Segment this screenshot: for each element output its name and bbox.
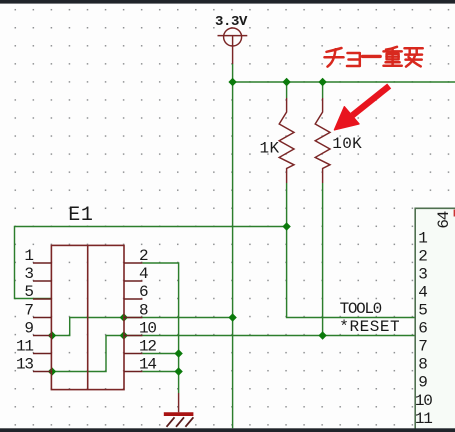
svg-text:6: 6 <box>139 283 148 301</box>
pin 6 <box>124 298 142 300</box>
svg-text:1K: 1K <box>260 139 280 157</box>
node 3.3V/top <box>228 78 236 86</box>
pin 1 <box>33 262 51 264</box>
svg-text:1: 1 <box>418 229 427 247</box>
node pin12 <box>174 349 182 357</box>
ground <box>164 393 194 427</box>
wire to ground <box>178 372 180 394</box>
svg-text:4: 4 <box>418 284 427 302</box>
IC U1 64-pin box (partial) <box>415 208 455 432</box>
wire 1K top lead <box>286 82 288 98</box>
window chrome bars <box>0 0 455 4</box>
svg-text:14: 14 <box>139 356 156 374</box>
wire 10K bottom <box>322 183 324 336</box>
right IC interior tint <box>415 209 455 428</box>
red sliver at right edge <box>454 210 455 217</box>
pin 9 <box>33 335 51 337</box>
svg-text:10K: 10K <box>332 135 362 153</box>
svg-text:3: 3 <box>418 266 427 284</box>
svg-text:64: 64 <box>435 211 453 228</box>
svg-text:1: 1 <box>24 247 33 265</box>
node 3.3V/pin8 wire <box>228 313 236 321</box>
svg-text:7: 7 <box>24 302 33 320</box>
svg-text:E1: E1 <box>68 204 93 227</box>
wire pin9 to 3.3V <box>52 318 233 336</box>
power symbol 3.3V <box>218 28 248 64</box>
junction diamonds <box>48 78 327 376</box>
svg-text:10: 10 <box>415 392 432 410</box>
pin 11 <box>33 353 51 355</box>
wire *RESET <box>124 335 415 337</box>
svg-text:3.3V: 3.3V <box>215 14 248 30</box>
svg-text:7: 7 <box>418 338 427 356</box>
pin 5 <box>33 298 51 300</box>
svg-text:11: 11 <box>16 338 33 356</box>
node pin8 <box>120 313 128 321</box>
node 10K/reset <box>318 331 326 339</box>
pin 12 <box>124 353 142 355</box>
svg-text:3: 3 <box>24 265 33 283</box>
svg-text:*RESET: *RESET <box>339 318 400 336</box>
node 1K top <box>282 78 290 86</box>
pin 3 <box>33 280 51 282</box>
wire pin12 stub link <box>142 353 178 355</box>
wire 3.3V vertical <box>232 64 234 428</box>
svg-text:2: 2 <box>139 247 148 265</box>
resistor R 1K <box>279 98 294 183</box>
svg-text:6: 6 <box>418 320 427 338</box>
pin 4 <box>124 280 142 282</box>
svg-text:10: 10 <box>139 320 156 338</box>
pin 10 <box>124 335 142 337</box>
svg-text:2: 2 <box>418 247 427 265</box>
node pin9 <box>48 331 56 339</box>
node pin13 <box>48 367 56 375</box>
svg-text:9: 9 <box>418 374 427 392</box>
wire pin14 stub link <box>142 371 178 373</box>
wire pin10 to pin13 <box>52 336 124 372</box>
pin 7 <box>33 317 51 319</box>
annotation text チョー重要 (hand-drawn glyphs, white halo + red) <box>325 47 423 67</box>
svg-text:8: 8 <box>418 356 427 374</box>
svg-text:8: 8 <box>139 302 148 320</box>
svg-text:TOOL0: TOOL0 <box>340 300 382 318</box>
annotation arrow <box>335 86 390 130</box>
wire 1K bottom to TOOL0 <box>287 183 415 318</box>
connector E1 box <box>51 245 124 389</box>
node 10K top <box>318 78 326 86</box>
wire 10K top lead <box>322 82 324 98</box>
pin 2 <box>124 262 142 264</box>
wire E1 top to pin5 <box>15 227 287 299</box>
wire pin2 vertical <box>142 263 178 372</box>
svg-text:12: 12 <box>139 338 156 356</box>
svg-text:11: 11 <box>415 410 432 428</box>
node 1K/E1 wire <box>282 222 290 230</box>
wire 3.3V horizontal top <box>233 81 455 83</box>
svg-text:5: 5 <box>24 283 33 301</box>
node pin10 <box>120 331 128 339</box>
svg-text:5: 5 <box>418 302 427 320</box>
svg-text:13: 13 <box>16 356 33 374</box>
svg-text:4: 4 <box>139 265 148 283</box>
pin 14 <box>124 371 142 373</box>
svg-text:9: 9 <box>24 320 33 338</box>
E1 pin stubs <box>33 263 142 372</box>
pin 8 <box>124 317 142 319</box>
resistor R 10K <box>315 98 330 183</box>
node pin14 <box>174 367 182 375</box>
pin 13 <box>33 371 51 373</box>
